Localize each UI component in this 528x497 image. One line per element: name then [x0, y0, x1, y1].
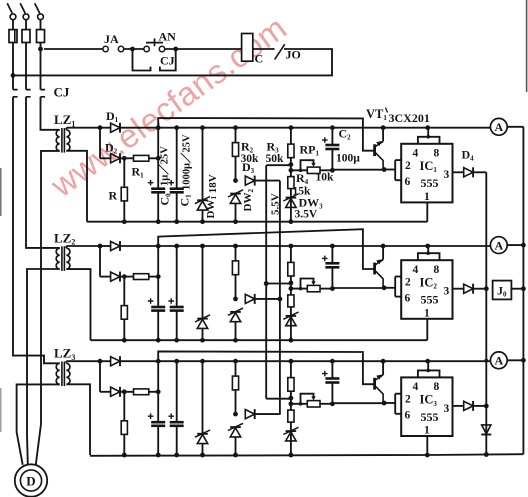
svg-text:A: A	[494, 238, 503, 252]
node LZ3 secondary output	[98, 359, 103, 364]
potentiometer RP2	[291, 288, 307, 290]
zener stage 2 DW3	[286, 315, 297, 317]
svg-text:3: 3	[444, 403, 450, 415]
op-amp timer IC2 555	[401, 260, 452, 319]
node LZ2 secondary output	[98, 244, 103, 249]
rectifier diode stage 3 upper	[111, 357, 120, 366]
transistor VT2	[382, 246, 384, 260]
transistor VT3	[382, 361, 384, 375]
node CJ branch right	[173, 47, 178, 52]
wire 5.5V reference line A	[265, 165, 267, 399]
junction	[122, 219, 127, 224]
diode output to rail	[482, 425, 491, 434]
svg-text:50k: 50k	[266, 153, 285, 165]
wire	[99, 246, 101, 277]
junction	[174, 244, 179, 249]
wire stage 3 base feed rail	[158, 351, 373, 384]
wire phase3 down to LZ1 primary	[41, 97, 60, 130]
node pot left	[289, 286, 294, 291]
node D2/R1/R	[122, 274, 127, 279]
wire pin 2 stub	[395, 393, 401, 395]
wire phase 2 to fuse	[25, 20, 27, 30]
resistor stage 2 R	[121, 306, 127, 320]
wire to reference line	[266, 164, 291, 166]
junction	[156, 359, 161, 364]
wire stage 3 ground rail	[90, 454, 523, 456]
svg-text:RP1: RP1	[300, 143, 320, 158]
junction	[330, 125, 335, 130]
capacitor stage 3 C2	[325, 377, 339, 380]
junction summing on ground rail	[484, 452, 489, 457]
svg-text:LZ3: LZ3	[54, 346, 75, 362]
wire phase 3 down to CJ contact	[40, 43, 42, 90]
junction	[156, 453, 161, 458]
diode stage 3 D3	[245, 410, 254, 419]
svg-text:5.5V: 5.5V	[270, 193, 282, 215]
wire phase 3 to fuse	[40, 20, 42, 30]
ammeter A3	[490, 352, 507, 369]
wire	[100, 157, 111, 159]
svg-text:R1: R1	[132, 165, 145, 180]
polarity +	[148, 413, 154, 419]
node R3 bottom	[289, 396, 294, 401]
resistor stage 3 R	[121, 421, 127, 435]
motor D	[15, 464, 47, 496]
wire pin 3 out	[453, 288, 464, 290]
wire	[149, 276, 158, 278]
ammeter A2	[490, 237, 507, 254]
node LZ1 secondary output	[98, 125, 103, 130]
junction	[156, 338, 161, 343]
svg-text:3CX201: 3CX201	[389, 111, 430, 125]
wire	[202, 444, 204, 455]
wire phase2 down to LZ2 primary	[26, 97, 60, 248]
junction	[156, 244, 161, 249]
node VT3 collector	[382, 401, 387, 406]
junction	[233, 244, 238, 249]
zener stage 3 DW1	[197, 433, 208, 435]
zener DW2	[230, 193, 241, 195]
rectifier diode stage 2 lower	[111, 272, 120, 281]
node phase3 / control tap	[38, 47, 43, 52]
junction right bus A2	[521, 243, 526, 248]
wire LZ1 secondary bottom to rail	[66, 151, 87, 222]
polarity +	[168, 298, 174, 304]
potentiometer RP1	[291, 169, 307, 171]
transistor VT1	[382, 128, 384, 142]
wire to JA contact	[44, 48, 103, 50]
node R2/D3/DW2	[233, 412, 238, 417]
wire	[202, 128, 204, 200]
polarity +	[168, 180, 174, 186]
svg-text:4: 4	[413, 381, 419, 393]
knife switch blade phase 1	[7, 3, 12, 13]
junction	[330, 244, 335, 249]
node R2/D3/DW2	[233, 178, 238, 183]
contactor CJ main contact 1	[13, 90, 18, 97]
wire ammeter to right bus	[507, 359, 523, 361]
wire pins 2+6 bracket bar	[394, 394, 396, 414]
wire stage 2 ground rail	[91, 339, 428, 341]
wire	[149, 157, 158, 159]
junction	[200, 244, 205, 249]
wire	[157, 128, 159, 188]
wire	[99, 361, 101, 392]
diode D1	[111, 123, 120, 132]
wire	[176, 193, 178, 221]
wire pin 1 to ground rail	[426, 319, 428, 340]
svg-text:4: 4	[413, 147, 419, 159]
wire	[235, 361, 237, 414]
svg-text:1: 1	[424, 425, 430, 437]
wire 5.5V reference line B	[279, 181, 281, 415]
rectifier diode stage 3 lower	[111, 387, 120, 396]
junction	[174, 125, 179, 130]
junction	[425, 244, 430, 249]
svg-text:8: 8	[434, 264, 440, 276]
junction	[233, 338, 238, 343]
wire to summing line	[473, 171, 486, 173]
wire stage 2 base feed rail	[158, 229, 373, 269]
fuse FU1	[9, 30, 17, 43]
wire	[176, 312, 178, 341]
svg-text:100µ: 100µ	[336, 153, 360, 165]
capacitor C2	[325, 144, 339, 147]
wire	[255, 180, 280, 182]
zener DW1	[197, 199, 208, 201]
contact JO (normally closed)	[275, 44, 285, 59]
wire control loop return	[13, 49, 332, 75]
svg-text:D2: D2	[105, 141, 118, 156]
junction	[233, 359, 238, 364]
contactor CJ main contact 3	[41, 90, 46, 97]
svg-text:8: 8	[434, 381, 440, 393]
svg-text:CJ: CJ	[160, 54, 175, 68]
wire	[157, 246, 159, 306]
wire pin 2 stub	[395, 159, 401, 161]
svg-text:CJ: CJ	[54, 85, 70, 100]
junction	[200, 453, 205, 458]
node CJ branch left	[130, 47, 135, 52]
resistor R3	[288, 144, 294, 158]
wire stage 1 ground rail	[87, 221, 427, 223]
svg-text:3: 3	[444, 169, 450, 181]
svg-text:1: 1	[424, 191, 430, 203]
wire	[290, 361, 292, 398]
diode D3	[245, 176, 254, 185]
wire output summing line	[485, 172, 487, 454]
wire	[331, 150, 333, 170]
junction	[174, 338, 179, 343]
wire	[235, 246, 237, 299]
wire stage 2 supply line to ammeter	[121, 245, 491, 247]
junction	[122, 453, 127, 458]
knife switch blade phase 3	[35, 3, 40, 13]
wire pot to C2 node	[320, 169, 332, 171]
svg-text:6: 6	[405, 176, 411, 188]
zener DW3	[286, 197, 297, 199]
wire	[331, 268, 333, 288]
wire to collector node	[332, 287, 384, 289]
fuse FU3	[37, 30, 45, 43]
polarity +	[148, 180, 154, 186]
wire	[123, 277, 125, 341]
wire to reference line	[266, 283, 291, 285]
wire LZ1 primary return to motor	[36, 151, 60, 465]
node C2 bottom	[330, 401, 335, 406]
wire J0 to right bus	[511, 288, 523, 290]
wire phase 1 to fuse	[12, 20, 14, 30]
junction	[122, 338, 127, 343]
junction	[200, 125, 205, 130]
wire to pins 2+6 bracket	[384, 402, 395, 404]
junction summing line stage 3 supply	[484, 359, 488, 363]
capacitor stage 2 C0	[151, 306, 165, 309]
wire stage 1 base feed rail	[158, 118, 373, 151]
junction	[156, 156, 161, 161]
transformer LZ1	[56, 130, 59, 151]
wire LZ2 primary return to motor	[27, 269, 60, 464]
node R2/D3/DW2	[233, 297, 238, 302]
junction	[174, 359, 179, 364]
capacitor stage 3 C1	[170, 421, 184, 424]
wire	[99, 128, 101, 159]
junction	[381, 359, 386, 364]
wire	[100, 276, 111, 278]
diode D2	[111, 154, 120, 163]
polarity +	[168, 413, 174, 419]
wire	[202, 246, 204, 318]
wire pin 6 stub	[395, 413, 401, 415]
wire	[157, 361, 159, 421]
svg-text:DW1 18V: DW1 18V	[205, 174, 219, 218]
pushbutton AN	[144, 46, 149, 51]
junction	[425, 359, 430, 364]
wire to summing line	[473, 405, 486, 407]
junction right bus	[521, 286, 526, 291]
junction	[200, 219, 205, 224]
wire pot to C2 node	[320, 403, 332, 405]
zener stage 2 DW1	[197, 318, 208, 320]
svg-text:C: C	[255, 52, 264, 66]
wire	[100, 360, 111, 362]
diode stage 2 D3	[245, 294, 254, 303]
svg-text:1: 1	[424, 307, 430, 319]
resistor stage 3 R3	[288, 378, 294, 392]
svg-text:2: 2	[405, 276, 411, 288]
junction	[233, 219, 238, 224]
wire	[121, 276, 134, 278]
op-amp timer IC1 555	[401, 144, 452, 203]
wire	[202, 361, 204, 433]
resistor stage 3 R1	[134, 389, 149, 395]
wire pot to C2 node	[320, 288, 332, 290]
capacitor stage 2 C1	[170, 306, 184, 309]
junction	[200, 359, 205, 364]
junction	[381, 244, 386, 249]
capacitor stage 3 C0	[151, 421, 165, 424]
polarity +	[322, 256, 328, 262]
svg-text:DW2: DW2	[242, 189, 255, 212]
node control return on phase 1	[11, 73, 16, 78]
wire	[123, 392, 125, 455]
svg-text:555: 555	[421, 293, 439, 307]
svg-text:D1: D1	[106, 109, 119, 124]
wire phase1 down to LZ3 primary	[13, 97, 60, 364]
junction	[156, 389, 161, 394]
resistor R4	[288, 177, 294, 189]
node R3 bottom	[289, 162, 294, 167]
wire pin 1 to ground rail	[426, 202, 428, 221]
wire bracket to supply	[427, 128, 429, 137]
wire LZ1 secondary top stub	[65, 128, 67, 130]
wire	[121, 157, 134, 159]
wire	[290, 165, 292, 222]
node C2 bottom	[330, 286, 335, 291]
contactor CJ main contact 2	[26, 90, 31, 97]
wire pin 6 stub	[395, 179, 401, 181]
svg-text:AN: AN	[159, 30, 177, 44]
junction stage 3 output	[484, 404, 489, 409]
wire LZ3 secondary bottom to rail	[66, 384, 90, 455]
junction	[156, 125, 161, 130]
svg-text:555: 555	[421, 410, 439, 424]
wire CJ aux branch left	[133, 49, 151, 71]
node pot left	[289, 168, 294, 173]
junction	[381, 125, 386, 130]
wire phase 2 down to CJ contact	[25, 43, 27, 90]
wire pin 2 stub	[395, 276, 401, 278]
junction	[425, 125, 430, 130]
wire pin 6 stub	[395, 296, 401, 298]
wire stage 1 supply line to ammeter	[121, 127, 491, 129]
wire	[290, 128, 292, 165]
ammeter A1	[490, 118, 507, 135]
wire	[157, 427, 159, 455]
wire right bus	[522, 127, 524, 455]
junction	[156, 219, 161, 224]
wire	[331, 128, 333, 145]
svg-text:2: 2	[405, 394, 411, 406]
svg-text:A: A	[494, 120, 503, 134]
wire bracket to supply	[427, 361, 429, 370]
wire	[157, 312, 159, 341]
junction	[233, 453, 238, 458]
rectifier diode stage 2 upper	[111, 241, 120, 250]
svg-text:6: 6	[405, 292, 411, 304]
wire to collector node	[332, 402, 384, 404]
relay contact JA	[103, 46, 108, 51]
wire ammeter to right bus	[507, 126, 523, 128]
junction	[289, 359, 294, 364]
wire to collector node	[332, 169, 384, 171]
wire	[290, 398, 292, 455]
wire	[100, 245, 111, 247]
svg-text:VT1: VT1	[366, 107, 387, 122]
junction pin1 stage 3 on rail	[425, 453, 430, 458]
junction stage 2 output	[484, 286, 489, 291]
wire bracket to supply	[427, 246, 429, 253]
junction	[174, 219, 179, 224]
resistor stage 3 R2	[232, 376, 238, 390]
wire	[121, 391, 134, 393]
svg-text:3: 3	[444, 286, 450, 298]
zener stage 3 DW2	[230, 426, 241, 428]
wire phase 1 down to CJ contact	[12, 43, 14, 90]
wire pin 1 to ground rail	[426, 436, 428, 455]
wire	[235, 322, 237, 341]
contactor coil C	[242, 34, 253, 62]
polarity +	[322, 371, 328, 377]
diode stage 2 output	[464, 284, 473, 293]
wire pins 4+8 bracket	[418, 253, 440, 260]
wire to summing line	[473, 288, 486, 290]
wire LZ3 secondary top stub	[65, 361, 67, 363]
wire	[157, 193, 159, 221]
junction ref B stage 2	[278, 297, 283, 302]
junction ref A stage 2	[264, 281, 269, 286]
op-amp timer IC3 555	[401, 377, 452, 436]
wire JA to AN	[124, 48, 144, 50]
resistor stage 2 R1	[134, 274, 149, 280]
wire	[202, 328, 204, 340]
scan edge artifacts	[526, 0, 528, 92]
junction	[289, 453, 294, 458]
wire	[176, 427, 178, 455]
resistor stage 2 R4	[288, 295, 294, 307]
node D2/R1/R	[122, 389, 127, 394]
wire	[290, 283, 292, 340]
relay J0	[493, 281, 512, 300]
wire	[123, 158, 125, 221]
junction	[289, 219, 294, 224]
wire LZ2 secondary top stub	[65, 246, 67, 248]
svg-text:C0: C0	[158, 193, 173, 206]
junction	[330, 359, 335, 364]
node C2 bottom	[330, 168, 335, 173]
junction	[289, 125, 294, 130]
wire pins 2+6 bracket bar	[394, 277, 396, 297]
wire	[149, 391, 158, 393]
wire	[176, 361, 178, 421]
wire ammeter to right bus	[507, 244, 523, 246]
svg-text:6: 6	[405, 410, 411, 422]
zener stage 2 DW2	[230, 311, 241, 313]
wire	[100, 391, 111, 393]
svg-text:2: 2	[405, 160, 411, 172]
wire	[331, 384, 333, 404]
junction	[156, 274, 161, 279]
svg-text:8: 8	[434, 147, 440, 159]
wire	[331, 361, 333, 378]
transformer LZ2	[56, 248, 59, 269]
capacitor stage 2 C2	[325, 262, 339, 265]
svg-text:1000µ／25V: 1000µ／25V	[180, 134, 193, 190]
junction	[233, 125, 238, 130]
junction right bus A3	[521, 358, 526, 363]
svg-text:3.5V: 3.5V	[295, 209, 318, 221]
wire to pins 2+6 bracket	[384, 287, 395, 289]
wire stage 3 supply line to ammeter	[121, 360, 491, 362]
wire	[255, 298, 280, 300]
svg-text:R: R	[109, 189, 118, 203]
svg-text:JA: JA	[104, 32, 119, 46]
diode D4	[464, 168, 473, 177]
svg-text:C1: C1	[178, 194, 193, 207]
capacitor C0	[151, 187, 165, 190]
node VT1 collector	[382, 167, 387, 172]
node VT2 collector	[382, 285, 387, 290]
